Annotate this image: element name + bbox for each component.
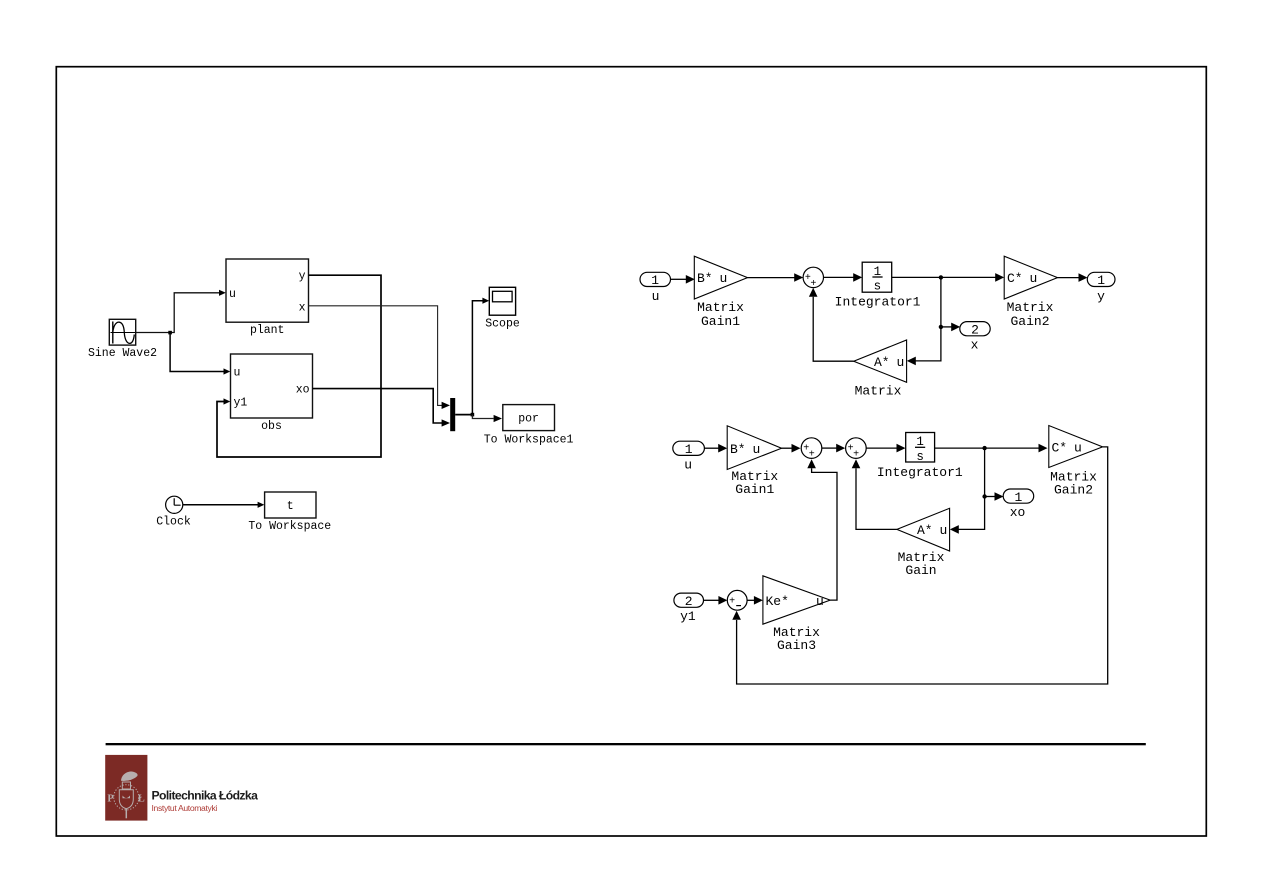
footer subtitle Instytut Automatyki	[152, 803, 218, 813]
gain Matrix Gain1 B*u (bottom)	[727, 426, 781, 470]
svg-text:Gain3: Gain3	[777, 638, 816, 653]
svg-text:Politechnika Łódzka: Politechnika Łódzka	[152, 789, 259, 803]
svg-text:Integrator1: Integrator1	[877, 465, 963, 480]
svg-text:Gain1: Gain1	[701, 314, 740, 329]
svg-text:C*: C*	[1007, 271, 1023, 286]
svg-text:+: +	[809, 450, 815, 461]
svg-text:Scope: Scope	[485, 318, 520, 331]
wire Matrix Gain3 to sum1 bottom	[807, 459, 837, 600]
Scope block	[489, 287, 515, 315]
wire to Scope	[472, 298, 489, 415]
svg-text:1: 1	[685, 442, 693, 457]
wire A gain to sum bottom (top)	[809, 288, 854, 361]
svg-text:C*: C*	[1052, 441, 1068, 456]
sum junction 2 ++ (bottom)	[846, 438, 867, 461]
subsystem block obs	[231, 354, 313, 418]
gain Matrix Gain2 C*u (bottom)	[1049, 426, 1103, 468]
junction node sine branch	[168, 331, 172, 335]
label To Workspace1	[484, 433, 574, 446]
svg-text:Sine Wave2: Sine Wave2	[88, 347, 157, 360]
outport 2 x (top diagram)	[960, 322, 990, 338]
wire inport to Matrix Gain1 (top)	[671, 275, 695, 284]
footer title Politechnika Lodzka	[152, 789, 259, 803]
wire sum2 to Integrator1 (bottom)	[866, 444, 905, 453]
label x (top outport 2)	[971, 338, 979, 353]
label u (top inport)	[652, 289, 660, 304]
svg-text:2: 2	[971, 323, 979, 338]
label Integrator1 (bottom)	[877, 465, 963, 480]
svg-text:+: +	[729, 596, 735, 607]
subsystem block plant	[226, 259, 309, 322]
svg-text:por: por	[518, 412, 539, 425]
label Matrix Gain1 (bottom)	[731, 469, 778, 497]
svg-text:u: u	[940, 523, 948, 538]
svg-text:P: P	[107, 793, 114, 804]
junction node mux output	[471, 413, 475, 417]
sum junction 3 +- (bottom)	[727, 590, 747, 610]
wire obs xo to mux in2	[313, 389, 451, 427]
wire Integrator1 to Matrix Gain2 (bottom)	[935, 444, 1048, 453]
svg-text:u: u	[897, 355, 905, 370]
svg-text:u: u	[229, 288, 236, 301]
svg-text:y1: y1	[234, 396, 248, 409]
Clock block	[166, 496, 183, 513]
label Matrix (top A gain)	[855, 383, 902, 398]
gain Matrix Gain A*u (bottom)	[897, 508, 950, 551]
outport 1 xo (bottom diagram)	[1003, 489, 1033, 505]
label Sine Wave2	[88, 347, 157, 360]
svg-text:Clock: Clock	[156, 515, 191, 528]
gain Matrix Gain1 B*u (top)	[694, 256, 747, 299]
wire feedback branch down (top)	[907, 277, 941, 365]
svg-text:plant: plant	[250, 324, 285, 337]
svg-text:A*: A*	[874, 355, 890, 370]
label Matrix Gain3 (bottom)	[773, 625, 820, 653]
To Workspace1 block	[503, 405, 555, 431]
label obs	[261, 420, 282, 433]
label Matrix Gain2 (top)	[1007, 300, 1054, 329]
wire plant y to obs y1	[217, 275, 381, 457]
svg-text:To Workspace1: To Workspace1	[484, 433, 574, 446]
wire to outport x	[941, 323, 960, 332]
junction node xo branch (bottom)	[982, 494, 986, 498]
svg-text:u: u	[652, 289, 660, 304]
label Scope	[485, 318, 520, 331]
wire inport y1 to sum3	[704, 596, 728, 605]
wire Sine Wave2 to plant u	[136, 290, 226, 333]
Integrator1 block (bottom)	[906, 433, 935, 464]
svg-text:Gain1: Gain1	[735, 482, 774, 497]
label u (bottom inport)	[684, 457, 692, 472]
svg-text:Gain2: Gain2	[1054, 483, 1093, 498]
svg-text:u: u	[753, 442, 761, 457]
svg-text:u: u	[1030, 271, 1038, 286]
svg-text:Gain2: Gain2	[1010, 314, 1049, 329]
logo Politechnika Lodzka emblem	[105, 755, 147, 821]
wire to To Workspace1	[472, 415, 502, 423]
svg-text:Ł: Ł	[138, 793, 145, 804]
wire Matrix Gain2 to outport y	[1058, 273, 1088, 282]
wire Matrix Gain1 to sum (top)	[748, 273, 804, 282]
wire Matrix Gain2 feedback to sum3	[732, 447, 1107, 684]
svg-text:Matrix: Matrix	[1007, 300, 1054, 315]
wire inport to Matrix Gain1 (bottom)	[704, 444, 727, 453]
junction node x branch (top)	[939, 325, 943, 329]
svg-text:B*: B*	[697, 271, 713, 286]
svg-text:Instytut Automatyki: Instytut Automatyki	[152, 803, 218, 813]
svg-text:u: u	[234, 367, 241, 380]
wire plant x to mux in1	[309, 306, 451, 409]
junction node integrator out (bottom)	[982, 446, 986, 450]
To Workspace block	[265, 492, 316, 518]
svg-text:u: u	[684, 457, 692, 472]
label Matrix Gain2 (bottom)	[1050, 470, 1097, 498]
gain Matrix Gain2 C*u (top)	[1004, 256, 1057, 299]
svg-text:xo: xo	[1010, 505, 1026, 520]
svg-text:Gain: Gain	[905, 563, 936, 578]
svg-text:2: 2	[685, 594, 693, 609]
gain Matrix A*u (top)	[854, 340, 907, 382]
mux block	[450, 398, 455, 431]
wire branch to obs u	[170, 333, 230, 375]
svg-text:B*: B*	[730, 442, 746, 457]
label y (top outport)	[1097, 289, 1105, 304]
footer rule line	[106, 743, 1146, 745]
svg-text:To Workspace: To Workspace	[248, 520, 331, 533]
svg-text:y: y	[1097, 289, 1105, 304]
svg-text:+: +	[853, 450, 859, 461]
svg-text:Matrix: Matrix	[855, 383, 902, 398]
inport 2 y1 (bottom diagram)	[674, 593, 704, 609]
Integrator1 block (top)	[862, 262, 892, 293]
sum junction 1 ++ (bottom)	[801, 438, 822, 461]
svg-text:Integrator1: Integrator1	[835, 295, 921, 310]
wire sum3 to Matrix Gain3	[747, 596, 763, 605]
svg-text:u: u	[1074, 441, 1082, 456]
svg-text:s: s	[916, 450, 924, 464]
label plant	[250, 324, 285, 337]
gain Matrix Gain3 Ke*u (bottom)	[763, 576, 830, 624]
label Matrix Gain (bottom A gain)	[898, 550, 945, 578]
label Clock	[156, 515, 191, 528]
inport 1 u (top diagram)	[640, 272, 671, 288]
svg-text:t: t	[287, 500, 294, 513]
inport 1 u (bottom diagram)	[673, 441, 705, 457]
svg-text:obs: obs	[261, 420, 282, 433]
svg-text:A*: A*	[917, 523, 933, 538]
wire sum1 to sum2 (bottom)	[822, 444, 845, 453]
wire mux output	[455, 414, 472, 416]
svg-text:1: 1	[651, 273, 659, 288]
svg-text:1: 1	[1014, 490, 1022, 505]
junction node integrator out (top)	[939, 275, 943, 279]
svg-text:xo: xo	[296, 383, 310, 396]
label xo (bottom outport)	[1010, 505, 1026, 520]
source block Sine Wave2	[109, 319, 135, 345]
wire Integrator1 to Matrix Gain2 (top)	[892, 273, 1005, 282]
label y1 (bottom inport)	[680, 609, 696, 624]
slide border frame	[56, 67, 1206, 836]
svg-text:Matrix: Matrix	[697, 300, 744, 315]
svg-text:1: 1	[1097, 273, 1105, 288]
outport 1 y (top diagram)	[1087, 272, 1115, 288]
wire Matrix Gain1 to sum1 (bottom)	[782, 444, 801, 453]
svg-text:Ke*: Ke*	[766, 594, 789, 609]
svg-text:s: s	[874, 280, 882, 294]
wire branch down to A gain (bottom)	[950, 448, 985, 534]
label Matrix Gain1 (top)	[697, 300, 744, 329]
svg-text:y: y	[299, 270, 306, 283]
svg-text:u: u	[816, 594, 824, 609]
label Integrator1 (top)	[835, 295, 921, 310]
wire to outport xo	[985, 492, 1004, 501]
svg-text:x: x	[299, 301, 306, 314]
svg-text:x: x	[971, 338, 979, 353]
wire Clock to To Workspace	[183, 502, 265, 508]
svg-text:u: u	[720, 271, 728, 286]
wire A gain to sum2 bottom	[852, 459, 897, 529]
svg-text:y1: y1	[680, 609, 696, 624]
sum junction ++ (top)	[803, 267, 823, 290]
label To Workspace	[248, 520, 331, 533]
wire sum to Integrator1 (top)	[824, 273, 863, 282]
